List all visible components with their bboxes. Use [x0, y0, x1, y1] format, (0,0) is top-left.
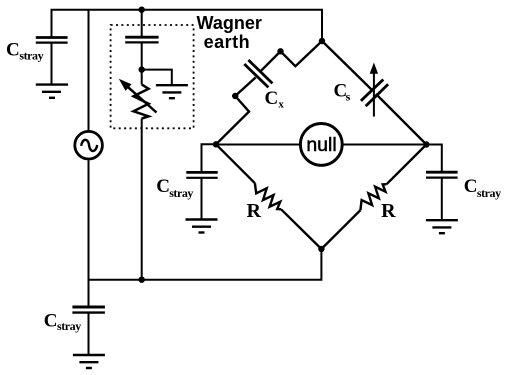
wire left resistor to D	[281, 209, 321, 249]
ground top-left	[36, 85, 68, 98]
svg-text:C: C	[156, 176, 170, 197]
wire Cs to C	[376, 94, 427, 145]
wire bottom cap to ground	[88, 313, 90, 355]
svg-text:earth: earth	[204, 32, 251, 52]
wire rheostat to bottom	[141, 119, 143, 280]
svg-text:stray: stray	[19, 48, 43, 62]
svg-text:stray: stray	[57, 319, 81, 333]
node bottom wire junction	[139, 277, 145, 283]
svg-text:C: C	[265, 88, 279, 109]
wire bridge arm A jog to Cx	[260, 41, 322, 71]
svg-text:C: C	[464, 176, 478, 197]
svg-text:stray: stray	[477, 186, 501, 200]
svg-text:R: R	[247, 200, 262, 222]
dotted box wagner earth	[111, 25, 194, 128]
wire wagner branch top	[141, 10, 143, 38]
svg-text:C: C	[6, 40, 20, 61]
node B left of bridge	[213, 141, 219, 147]
node D bottom of bridge	[318, 246, 324, 252]
resistor R left	[255, 183, 281, 209]
wire B stub to left stray cap	[202, 144, 217, 172]
wire B to left resistor	[216, 144, 255, 183]
AC source	[75, 131, 103, 159]
null detector U1	[300, 123, 342, 165]
capacitor Cs variable	[361, 70, 388, 117]
rheostat arrow	[119, 79, 157, 113]
svg-text:Wagner: Wagner	[197, 13, 262, 33]
node D1 Cx top	[277, 48, 283, 54]
wire left stray cap to ground	[201, 178, 203, 220]
wire bottom horizontal	[89, 249, 322, 280]
svg-text:s: s	[346, 90, 351, 104]
arrow of Cs	[370, 63, 378, 74]
node C right of bridge	[423, 141, 429, 147]
wire null to C	[343, 144, 426, 146]
wire D to right resistor	[321, 210, 360, 249]
capacitor Cx	[244, 60, 272, 87]
wire wagner cap to rheostat	[141, 42, 143, 84]
wire right stray cap to ground	[441, 178, 443, 221]
wire right resistor to C	[387, 145, 427, 185]
capacitor C_stray right	[426, 172, 458, 177]
wire Cx to B jog	[216, 77, 256, 144]
wire top horizontal	[52, 10, 323, 41]
wire C stub to right stray cap	[426, 145, 441, 173]
rheostat in wagner box	[134, 85, 149, 119]
ground bottom	[73, 355, 105, 368]
node A top of bridge	[319, 38, 325, 44]
node top junction	[139, 7, 145, 13]
wire B to null	[216, 144, 300, 146]
wire left rail upper	[88, 10, 90, 130]
capacitor C_stray top-left	[36, 38, 68, 43]
capacitor C_stray bottom	[72, 307, 105, 313]
svg-text:R: R	[381, 200, 396, 222]
svg-text:null: null	[306, 134, 336, 156]
resistor R right	[360, 184, 386, 210]
wire left rail lower	[88, 160, 90, 307]
svg-text:x: x	[278, 99, 284, 111]
wire top-left cap to ground	[51, 43, 53, 85]
ground right	[426, 220, 458, 233]
wire ground tap in box	[142, 70, 172, 86]
capacitor C_stray left	[186, 172, 217, 177]
svg-text:stray: stray	[169, 186, 193, 200]
ground in wagner box	[156, 85, 188, 98]
svg-text:C: C	[44, 311, 58, 332]
capacitor in wagner box	[125, 37, 158, 42]
node D2 Cx bottom	[232, 93, 238, 99]
ground left	[186, 220, 218, 233]
wire arm A to Cs	[322, 41, 372, 90]
node rheostat top	[139, 66, 145, 72]
